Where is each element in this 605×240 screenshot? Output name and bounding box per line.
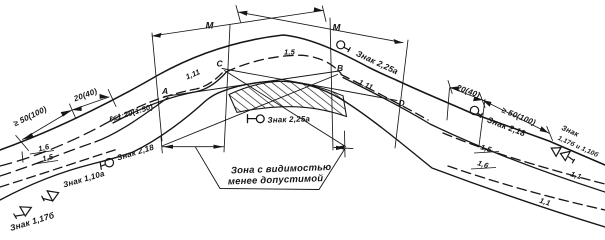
arrow M left at left end [152, 33, 162, 38]
right chain dimension 20(40) [450, 88, 483, 101]
right lower dashed line [448, 166, 605, 210]
svg-text:≥ 50(100): ≥ 50(100) [12, 104, 48, 128]
zone dim arrows left segment [163, 145, 173, 149]
connector between shelves [22, 152, 23, 163]
left second dashed lane line [0, 149, 118, 187]
svg-text:Знак 1,10а: Знак 1,10а [62, 169, 106, 190]
svg-text:1,5: 1,5 [284, 48, 296, 57]
tick right end [547, 127, 553, 141]
extension line through A [152, 33, 162, 141]
extension line zone left end [161, 137, 162, 153]
svg-text:Знак 2,25а: Знак 2,25а [267, 114, 310, 124]
svg-text:Знак 2,18: Знак 2,18 [116, 143, 155, 163]
sign symbol 2.25a top right [337, 41, 351, 52]
sign symbol 2.18 left [100, 159, 113, 170]
sign symbol 2.25a centre [248, 115, 265, 123]
svg-text:C: C [217, 59, 224, 69]
marking 1.11 left: solid component [113, 73, 226, 124]
sight chord A-B [164, 71, 339, 97]
sight line from C to zone right end [225, 71, 346, 147]
marking 1.11 right: dashed component near B [341, 75, 428, 121]
road outer edge: left tangent, crest arc, right tangent [0, 35, 605, 165]
arrow M right at left end [238, 11, 248, 16]
svg-text:20(40): 20(40) [72, 87, 99, 104]
arrow right 50(100) right end [540, 126, 549, 133]
extension line through D [395, 40, 408, 148]
svg-text:менее допустимой: менее допустимой [228, 173, 324, 187]
hatched zone of restricted visibility [229, 81, 347, 116]
svg-text:A: A [161, 86, 168, 96]
shelf for 1,5 left [34, 161, 58, 165]
marking 1.11 right: solid component [343, 78, 605, 193]
right chain: tick at 449 [448, 81, 452, 94]
arrow M left at right end [314, 7, 323, 12]
tick junction [70, 104, 76, 119]
left chain dimension >=50(100) [23, 110, 73, 140]
zone dim arrows right segment [334, 145, 344, 149]
extension through sign 2.18 right [479, 99, 485, 146]
extension line through B [330, 18, 333, 150]
marking 1.5/1.6 right: dashed component separated [443, 133, 605, 184]
sign symbol 1.10a left [42, 191, 59, 201]
extension line through C [224, 25, 230, 152]
sight chord C-D [222, 69, 397, 101]
callout funnel to zone label [196, 147, 346, 189]
arrow 20(40) left [72, 106, 82, 111]
tick left end of M right [236, 6, 241, 23]
svg-text:M: M [206, 21, 215, 32]
zone width dimension right segment [334, 147, 353, 148]
right chain dimension >=50(100) [483, 100, 549, 133]
tick right end of M left [322, 6, 326, 22]
zone width dimension left segment [163, 146, 224, 148]
arrow 50(100) at junction [61, 110, 72, 117]
arrow 20(40) right [100, 94, 110, 99]
centre line left: dashed marking 1.5/1.6 [0, 120, 112, 166]
extension down from 449 [447, 88, 450, 120]
centre dashed arc over crest, marking 1.5 [226, 55, 341, 73]
sign symbol 1.17 bottom left [14, 207, 32, 219]
shelf for 1,6 right [471, 168, 496, 170]
arrow M right at right end [394, 39, 403, 44]
svg-text:1,11: 1,11 [184, 67, 201, 81]
sign symbols 1.17 and 1.10 right [551, 148, 574, 163]
road inner edge: left tangent, inner arc, right descent [0, 81, 605, 227]
svg-text:B: B [337, 63, 343, 73]
marking 1.11 left: dashed component [112, 70, 225, 120]
arrow right 20(40) right end [473, 96, 482, 101]
sign symbol 2.18 right [470, 106, 482, 117]
tick junction right [480, 94, 485, 108]
left chain dimension 20(40) [72, 97, 109, 110]
arrow left chain far left [23, 133, 34, 140]
shelf bars [22, 151, 499, 170]
sight line from B to zone left end [162, 75, 338, 147]
shelf for 1,5 right [474, 152, 499, 154]
svg-text:20(40): 20(40) [454, 83, 481, 100]
solid taper of line 1.1 merging into 1.11 (taper l<=1:20) [95, 98, 168, 143]
dimension M left [152, 11, 323, 37]
tick far left [16, 136, 29, 151]
svg-text:M: M [333, 23, 342, 34]
arrowheads [23, 7, 549, 150]
extension line zone right end [344, 131, 347, 157]
second centre dashed line 1.5 left [0, 142, 95, 176]
svg-text:Знак 1,17б: Знак 1,17б [9, 210, 56, 233]
shelf for 1,6 left [30, 151, 54, 155]
tick transition [108, 90, 116, 107]
arrow right 20(40) left end [450, 86, 459, 91]
arrow right 50(100) left end [483, 100, 492, 107]
svg-text:1,1: 1,1 [569, 169, 582, 181]
svg-text:D: D [399, 98, 405, 108]
dimension M right [238, 12, 403, 43]
